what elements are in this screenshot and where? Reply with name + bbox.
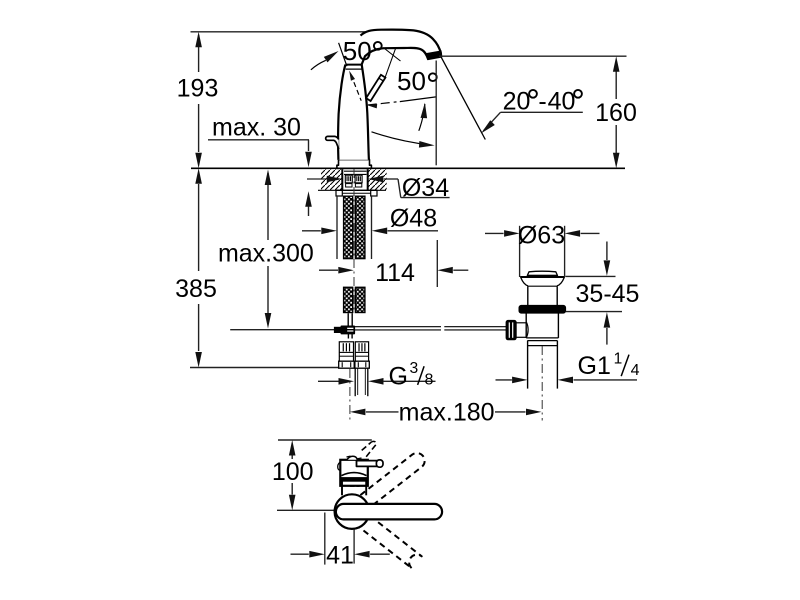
svg-text:Ø48: Ø48: [390, 205, 437, 233]
svg-text:50: 50: [343, 36, 372, 66]
svg-text:G1: G1: [578, 352, 611, 380]
svg-text:385: 385: [175, 275, 217, 303]
svg-text:41: 41: [326, 542, 354, 570]
svg-text:Ø34: Ø34: [402, 174, 449, 202]
svg-text:max.300: max.300: [218, 240, 314, 268]
svg-text:1: 1: [614, 350, 623, 367]
svg-text:max.180: max.180: [399, 399, 495, 427]
svg-text:max. 30: max. 30: [212, 113, 301, 141]
svg-text:160: 160: [595, 99, 637, 127]
svg-text:40: 40: [548, 87, 576, 115]
svg-text:35-45: 35-45: [576, 280, 640, 308]
svg-text:Ø63: Ø63: [518, 221, 565, 249]
svg-text:193: 193: [177, 75, 219, 103]
svg-text:50: 50: [397, 66, 426, 96]
svg-text:4: 4: [631, 362, 640, 379]
svg-text:100: 100: [272, 458, 314, 486]
svg-text:114: 114: [375, 259, 415, 287]
svg-text:8: 8: [425, 371, 434, 388]
svg-text:3: 3: [410, 360, 419, 377]
svg-text:-: -: [538, 87, 546, 115]
svg-text:20: 20: [503, 87, 531, 115]
svg-text:G: G: [389, 363, 408, 391]
